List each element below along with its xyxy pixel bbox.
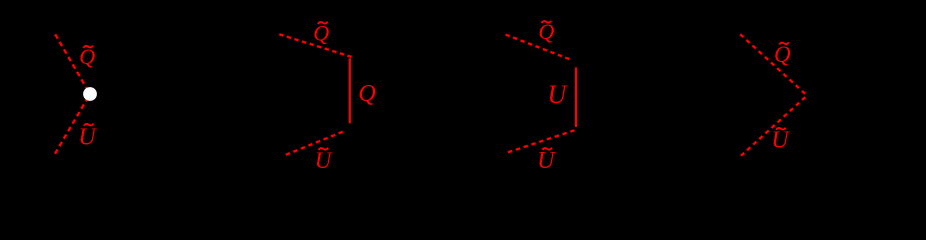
wire squark leg Utilde diagram 4 (lower-left, red dashed) [741, 97, 805, 156]
svg-text:Q: Q [79, 44, 95, 69]
svg-text:U: U [548, 80, 569, 109]
vertex blob diagram 1 (white circle) [83, 87, 97, 101]
wire squark leg Utilde diagram 2 (lower-left, red dashed) [286, 132, 344, 155]
tilde over Q (diagram 4) [779, 42, 789, 44]
wire squark leg Utilde diagram 1 (lower-left, red dashed) [55, 94, 90, 154]
svg-text:Q: Q [313, 20, 329, 45]
svg-text:U: U [537, 148, 556, 174]
propagator U diagram 3 (red solid vertical line) [575, 67, 577, 127]
tilde over Q (diagram 3) [542, 21, 552, 23]
tilde over U (diagram 1) [84, 124, 94, 126]
tilde over U (diagram 2) [319, 148, 329, 150]
svg-text:U: U [771, 127, 790, 153]
wire squark leg Qtilde diagram 2 (upper-left, red dashed) [279, 34, 351, 57]
wire squark leg Qtilde diagram 4 (upper-left, red dashed) [740, 34, 805, 94]
wire squark leg Qtilde diagram 1 (upper-left, red dashed) [55, 34, 90, 94]
tilde over Q (diagram 2) [318, 22, 328, 24]
propagator Q diagram 2 (red solid vertical line) [349, 58, 351, 123]
svg-text:U: U [315, 148, 333, 173]
tilde over U (diagram 4) [776, 128, 786, 130]
svg-text:Q: Q [774, 42, 791, 67]
svg-text:U: U [78, 124, 97, 150]
wire squark leg Utilde diagram 3 (lower-left, red dashed) [508, 130, 575, 152]
tilde over U (diagram 3) [542, 148, 552, 150]
wire squark leg Qtilde diagram 3 (upper-left, red dashed) [506, 35, 570, 60]
svg-text:Q: Q [358, 80, 376, 107]
tilde over Q (diagram 1) [83, 46, 93, 48]
